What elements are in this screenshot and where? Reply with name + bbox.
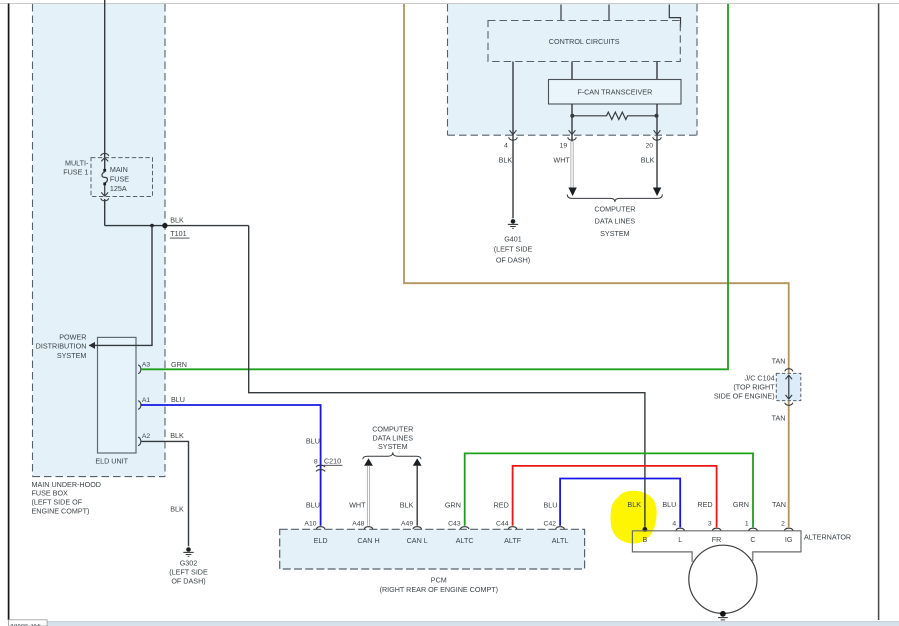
svg-text:BLK: BLK bbox=[170, 505, 184, 514]
svg-text:4: 4 bbox=[504, 142, 508, 149]
pin C44 arc bbox=[508, 527, 517, 529]
pin 19 exit arrow and connector arc bbox=[568, 130, 576, 140]
svg-text:(LEFT SIDE: (LEFT SIDE bbox=[169, 568, 208, 577]
svg-text:SYSTEM: SYSTEM bbox=[57, 351, 87, 360]
svg-text:8: 8 bbox=[314, 458, 318, 465]
svg-text:OF DASH): OF DASH) bbox=[496, 255, 530, 264]
label: POWER DISTRIBUTION SYSTEM bbox=[36, 332, 87, 360]
wire: F-CAN left leg to pin 19 bbox=[571, 104, 573, 142]
pin A48 arc bbox=[364, 527, 373, 529]
pin 4 arc (alternator L) bbox=[676, 528, 685, 530]
alternator box bbox=[632, 531, 801, 562]
pin 4 exit arrow and connector arc bbox=[509, 130, 517, 140]
arrowhead: CAN H line down bbox=[568, 188, 576, 197]
svg-text:19: 19 bbox=[560, 142, 568, 149]
pin 3 arc (alternator FR) bbox=[712, 528, 721, 530]
wire: control circuits to F-CAN left bbox=[571, 62, 573, 80]
connector arc above fuse bbox=[101, 153, 109, 156]
fuse element MAIN FUSE 125A (squiggle with end dots) bbox=[102, 169, 107, 185]
svg-text:BLU: BLU bbox=[662, 500, 676, 509]
wire BLU: ELD A1 down through C210 to PCM A10 bbox=[141, 405, 321, 526]
svg-text:ALTC: ALTC bbox=[456, 536, 474, 545]
svg-text:COMPUTER: COMPUTER bbox=[372, 425, 413, 434]
wire stub 3 (top feed, L-shape) bbox=[669, 5, 680, 28]
svg-text:(TOP RIGHT: (TOP RIGHT bbox=[733, 383, 775, 392]
label: MULTI-FUSE 1 bbox=[63, 158, 89, 176]
svg-text:IG: IG bbox=[785, 535, 793, 544]
svg-text:J/C C104: J/C C104 bbox=[745, 374, 775, 383]
svg-text:C43: C43 bbox=[448, 521, 461, 528]
svg-text:(LEFT SIDE OF: (LEFT SIDE OF bbox=[32, 497, 83, 506]
wire BLK: PCM A49 CAN L bbox=[416, 466, 418, 526]
alternator circle bbox=[689, 545, 757, 613]
svg-text:MAIN UNDER-HOOD: MAIN UNDER-HOOD bbox=[32, 480, 101, 489]
svg-text:ALTERNATOR: ALTERNATOR bbox=[804, 532, 851, 541]
wire stub 1 (top feed) bbox=[560, 5, 562, 21]
svg-text:1: 1 bbox=[745, 520, 749, 527]
PCM box (dashed shaded) bbox=[280, 529, 585, 569]
arrowhead: CAN L line down bbox=[653, 188, 661, 197]
svg-text:G302: G302 bbox=[180, 559, 198, 568]
connector arc below fuse bbox=[101, 198, 109, 201]
wire TAN: top feed to J/C C104 and alternator IG bbox=[404, 4, 789, 527]
svg-text:SIDE OF ENGINE): SIDE OF ENGINE) bbox=[714, 392, 775, 401]
label: COMPUTER DATA LINES SYSTEM (lower) bbox=[372, 425, 413, 452]
brace: computer data lines (top) bbox=[567, 194, 662, 202]
highlight: yellow marker blob over BLK at alternator B bbox=[611, 491, 657, 544]
label: J/C C104 (TOP RIGHT SIDE OF ENGINE) bbox=[714, 374, 775, 401]
wire: T101 horizontal run bbox=[105, 225, 249, 227]
connector C210 symbol bbox=[316, 465, 325, 471]
brace: computer data lines (lower, pointing up) bbox=[363, 452, 421, 459]
svg-text:A10: A10 bbox=[304, 521, 316, 528]
pin A3 arc bbox=[138, 365, 141, 373]
svg-text:125A: 125A bbox=[110, 184, 127, 193]
svg-text:L: L bbox=[678, 535, 682, 544]
label: MAIN FUSE 125A bbox=[110, 165, 129, 193]
junction dot (right of resistor) bbox=[655, 114, 659, 118]
svg-text:FUSE 1: FUSE 1 bbox=[63, 167, 88, 176]
arrow inside J/C C104 bbox=[786, 375, 793, 399]
svg-text:BLK: BLK bbox=[400, 501, 414, 510]
wire WHT: PCM A48 CAN H (white wire) bbox=[367, 466, 369, 526]
svg-text:2: 2 bbox=[781, 520, 785, 527]
label: PCM (RIGHT REAR OF ENGINE COMPT) bbox=[380, 576, 498, 594]
svg-text:BLK: BLK bbox=[641, 156, 655, 165]
label: MAIN UNDER-HOOD FUSE BOX caption bbox=[32, 480, 101, 516]
svg-text:(LEFT SIDE: (LEFT SIDE bbox=[494, 245, 533, 254]
fuse box: MAIN UNDER-HOOD FUSE BOX (dashed shaded) bbox=[33, 4, 166, 477]
arrowhead: CAN L up bbox=[413, 458, 422, 465]
junction dot at alternator B bbox=[643, 527, 648, 532]
junction dot (left of resistor) bbox=[570, 114, 574, 118]
ELD unit box bbox=[98, 337, 137, 453]
svg-text:SYSTEM: SYSTEM bbox=[600, 229, 630, 238]
page top border bbox=[0, 3, 899, 5]
svg-text:ALTL: ALTL bbox=[552, 536, 569, 545]
svg-text:WHT: WHT bbox=[349, 501, 366, 510]
svg-text:3: 3 bbox=[708, 520, 712, 527]
ground G302 symbol bbox=[183, 547, 193, 556]
svg-text:TAN: TAN bbox=[772, 500, 786, 509]
svg-text:A49: A49 bbox=[401, 521, 413, 528]
wire: control circuits to pin 4 bbox=[512, 62, 514, 219]
svg-text:ENGINE COMPT): ENGINE COMPT) bbox=[32, 506, 90, 515]
svg-text:MULTI-: MULTI- bbox=[65, 158, 89, 167]
terminal T101 dot bbox=[162, 223, 167, 228]
wire: battery feed into MULTI-FUSE 1 bbox=[104, 0, 106, 170]
svg-text:GRN: GRN bbox=[445, 501, 461, 510]
connector arc below J/C C104 bbox=[785, 403, 793, 406]
svg-text:CONTROL CIRCUITS: CONTROL CIRCUITS bbox=[549, 37, 620, 46]
label: G401 (LEFT SIDE OF DASH) bbox=[494, 234, 533, 264]
svg-text:C210: C210 bbox=[324, 456, 341, 465]
pin A10 arc bbox=[316, 527, 325, 529]
CONTROL CIRCUITS box (dashed) bbox=[488, 21, 680, 62]
label: 8 C210 bbox=[314, 456, 342, 465]
arrow down at fuse box edge bbox=[101, 192, 108, 196]
svg-text:A2: A2 bbox=[142, 433, 151, 440]
svg-text:FR: FR bbox=[712, 535, 722, 544]
pin C43 arc bbox=[460, 527, 469, 529]
label: G302 (LEFT SIDE OF DASH) bbox=[169, 559, 208, 586]
svg-text:20: 20 bbox=[645, 142, 653, 149]
svg-text:ELD: ELD bbox=[314, 536, 328, 545]
arrow: to POWER DISTRIBUTION SYSTEM bbox=[89, 342, 95, 349]
svg-text:COMPUTER: COMPUTER bbox=[594, 204, 635, 213]
svg-text:A1: A1 bbox=[142, 397, 151, 404]
svg-text:ALTF: ALTF bbox=[504, 536, 522, 545]
svg-text:GRN: GRN bbox=[171, 360, 187, 369]
svg-text:TAN: TAN bbox=[772, 357, 786, 366]
junction connector J/C C104 box bbox=[776, 373, 801, 400]
op-amp U1: F-CAN TRANSCEIVER box bbox=[549, 80, 682, 105]
svg-text:TAN: TAN bbox=[772, 414, 786, 423]
svg-text:DATA LINES: DATA LINES bbox=[595, 217, 636, 226]
svg-text:(RIGHT REAR OF ENGINE COMPT): (RIGHT REAR OF ENGINE COMPT) bbox=[380, 585, 498, 594]
resistor R1 (CAN termination) bbox=[572, 112, 657, 119]
page left border bbox=[8, 4, 10, 621]
footer scrollbar bar bbox=[47, 622, 899, 626]
svg-text:A48: A48 bbox=[352, 521, 364, 528]
svg-text:RED: RED bbox=[697, 500, 712, 509]
pin 2 arc (alternator IG) bbox=[784, 528, 793, 530]
svg-text:B: B bbox=[643, 535, 648, 544]
pin A49 arc bbox=[413, 527, 422, 529]
svg-text:RED: RED bbox=[494, 501, 509, 510]
fuse F1 MULTI-FUSE 1 box (dashed) bbox=[91, 158, 153, 197]
svg-text:FUSE: FUSE bbox=[110, 175, 129, 184]
wire WHT: pin 19 to computer data lines (white wire) bbox=[571, 142, 573, 188]
wire RED: PCM C44 to alternator FR bbox=[513, 466, 717, 528]
wire: control circuits to F-CAN right bbox=[656, 62, 658, 80]
wire: F-CAN right leg to pin 20 bbox=[656, 104, 658, 188]
wire GRN: PCM C43 to alternator C bbox=[465, 453, 753, 527]
svg-text:C42: C42 bbox=[544, 521, 557, 528]
label: T101 bbox=[170, 229, 190, 238]
wire: fuse to T101 junction bbox=[104, 199, 106, 226]
svg-text:G401: G401 bbox=[504, 234, 522, 243]
svg-text:DISTRIBUTION: DISTRIBUTION bbox=[36, 342, 87, 351]
pin A2 arc bbox=[138, 437, 141, 445]
module box (top, dashed shaded) bbox=[448, 4, 698, 135]
svg-text:F-CAN TRANSCEIVER: F-CAN TRANSCEIVER bbox=[577, 88, 652, 97]
label: COMPUTER DATA LINES SYSTEM (top) bbox=[594, 204, 635, 237]
svg-text:C44: C44 bbox=[496, 521, 509, 528]
svg-text:BLU: BLU bbox=[171, 395, 185, 404]
svg-text:PCM: PCM bbox=[431, 576, 447, 585]
svg-text:SYSTEM: SYSTEM bbox=[378, 442, 408, 451]
svg-text:POWER: POWER bbox=[59, 332, 86, 341]
svg-text:GRN: GRN bbox=[733, 500, 749, 509]
svg-text:BLU: BLU bbox=[544, 501, 558, 510]
connector arc above J/C C104 bbox=[785, 369, 793, 372]
wire GRN: ELD A3 to top of page bbox=[141, 4, 728, 369]
svg-text:ELD UNIT: ELD UNIT bbox=[95, 456, 128, 465]
svg-text:MAIN: MAIN bbox=[110, 165, 128, 174]
svg-text:BLU: BLU bbox=[306, 501, 320, 510]
ground G401 symbol bbox=[508, 219, 518, 228]
svg-text:4: 4 bbox=[672, 520, 676, 527]
arrow up at fuse box edge bbox=[101, 158, 108, 162]
svg-text:DATA LINES: DATA LINES bbox=[373, 433, 414, 442]
svg-text:C: C bbox=[750, 535, 755, 544]
junction dot (power distribution branch) bbox=[150, 224, 154, 228]
svg-text:A3: A3 bbox=[142, 361, 151, 368]
wire BLU: PCM C42 to alternator L bbox=[560, 479, 680, 528]
svg-text:BLK: BLK bbox=[170, 215, 184, 224]
wire stub 2 (top feed) bbox=[608, 5, 610, 21]
ground at alternator case bbox=[718, 611, 728, 620]
svg-text:BLU: BLU bbox=[306, 436, 320, 445]
wire: fuse to bottom arrow bbox=[104, 185, 106, 196]
svg-text:OF DASH): OF DASH) bbox=[171, 577, 205, 586]
arrowhead: CAN H up bbox=[364, 458, 373, 465]
svg-text:T101: T101 bbox=[170, 229, 186, 238]
pin C42 arc bbox=[556, 527, 565, 529]
wire: branch down to power distribution arrow bbox=[89, 226, 152, 346]
svg-text:FUSE BOX: FUSE BOX bbox=[32, 489, 69, 498]
pin 20 exit arrow and connector arc bbox=[653, 130, 661, 140]
pin A1 arc bbox=[138, 401, 141, 409]
svg-text:BLK: BLK bbox=[627, 500, 641, 509]
svg-text:CAN L: CAN L bbox=[407, 536, 428, 545]
wire BLK: T101 run to alternator pin B (long) bbox=[249, 226, 645, 527]
pin 1 arc (alternator C) bbox=[749, 528, 758, 530]
wire BLK: ELD A2 to ground G302 bbox=[141, 441, 189, 546]
page right border bbox=[878, 4, 880, 621]
svg-text:CAN H: CAN H bbox=[357, 536, 379, 545]
svg-text:BLK: BLK bbox=[499, 156, 513, 165]
svg-text:BLK: BLK bbox=[170, 431, 184, 440]
footer timestamp box bbox=[9, 620, 48, 626]
svg-text:WHT: WHT bbox=[553, 156, 570, 165]
